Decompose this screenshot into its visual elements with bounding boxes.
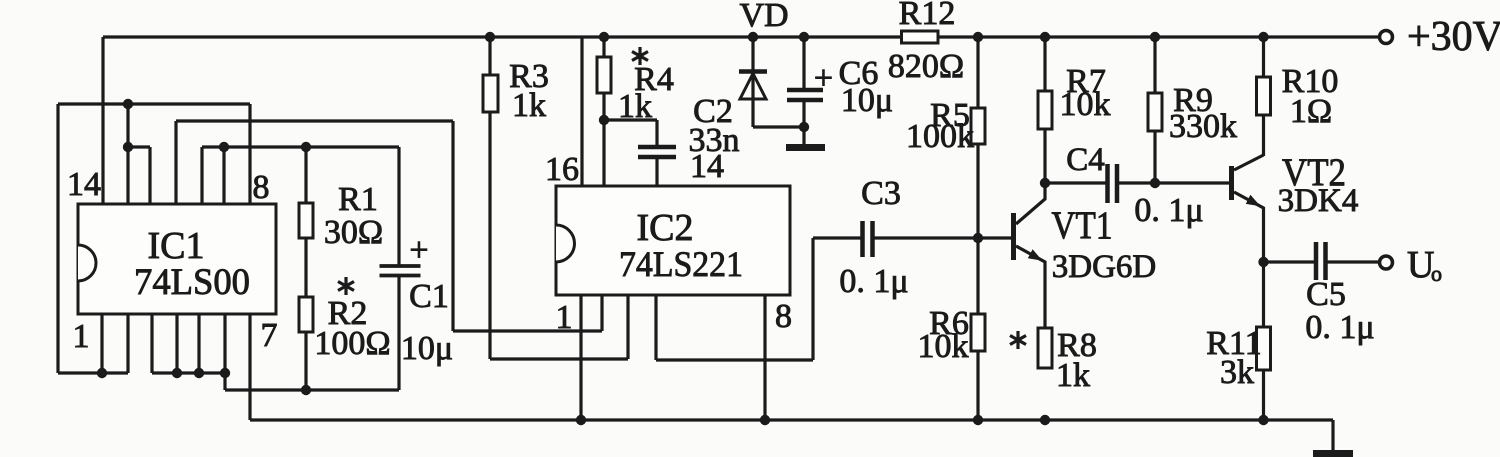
wire pin11 down vertical: [451, 121, 454, 331]
svg-text:1k: 1k: [1056, 357, 1090, 394]
svg-text:IC2: IC2: [637, 207, 694, 249]
wire C6 top lead: [802, 37, 805, 89]
wire IC2 pin3: [626, 295, 629, 359]
junction IC2 pin8 at bus: [760, 415, 770, 425]
junction R11 at bus: [1258, 415, 1268, 425]
wire IC2 pin1 to bus: [579, 295, 582, 420]
wire IC1 pin1: [100, 314, 103, 373]
junction R4-C2 node: [599, 115, 609, 125]
wire C5 left lead: [1264, 260, 1315, 263]
svg-text:+: +: [814, 60, 833, 97]
wire R5 chain: [976, 37, 979, 238]
wire R3 chain: [488, 37, 491, 359]
wire R10 chain: [1262, 37, 1265, 156]
resistor R8: [1038, 327, 1097, 394]
junction pin1 bottom net: [97, 368, 107, 378]
svg-text:R1: R1: [338, 181, 378, 218]
junction R9-C4 node: [1150, 178, 1160, 188]
wire VT1 collector: [1016, 183, 1045, 224]
svg-text:33n: 33n: [689, 122, 740, 159]
wire R4 to C2 horizontal: [604, 118, 657, 121]
wire left box vertical: [56, 104, 59, 373]
wire IC1 pin8: [248, 104, 251, 204]
resistor R7: [1038, 63, 1111, 129]
svg-text:C3: C3: [861, 175, 901, 212]
wire net C horizontal: [202, 145, 399, 148]
wire IC1 pin13: [126, 104, 129, 204]
junction IC2 pin1 at bus: [576, 415, 586, 425]
junction R3 at rail: [485, 32, 495, 42]
svg-text:C5: C5: [1306, 276, 1346, 313]
junction R9 at rail: [1150, 32, 1160, 42]
wire R7 chain: [1043, 37, 1046, 183]
wire C4 left lead: [1045, 181, 1106, 184]
svg-text:10k: 10k: [918, 328, 969, 365]
svg-text:1: 1: [73, 318, 90, 355]
wire IC2 pin4 horizontal: [656, 358, 813, 361]
terminal Uo output: [1380, 244, 1443, 286]
svg-text:3k: 3k: [1220, 354, 1254, 391]
wire to VT2 base: [1155, 181, 1229, 184]
wire C2 top lead: [655, 120, 658, 145]
wire C1 bottom lead: [397, 277, 400, 390]
capacitor C2: [638, 93, 740, 159]
junction R8 at bus: [1040, 415, 1050, 425]
wire VT1 emitter: [1016, 246, 1045, 328]
svg-text:+30V: +30V: [1407, 14, 1500, 60]
wire C3 left lead: [813, 236, 861, 239]
wire VD to C6: [753, 125, 804, 128]
transistor Q2 VT2: [1229, 151, 1358, 219]
wire IC1 pin9: [222, 147, 225, 204]
svg-text:0. 1μ: 0. 1μ: [1134, 192, 1203, 229]
wire pin11 horizontal: [176, 119, 453, 122]
svg-text:VT1: VT1: [1052, 204, 1113, 247]
wire IC1 pin2: [126, 314, 129, 373]
IC U2 IC2 74LS221 box: [556, 186, 790, 295]
wire C5 right lead: [1328, 260, 1381, 263]
wire R4 chain: [602, 37, 605, 186]
junction R5 at rail: [973, 32, 983, 42]
wire VT2 collector: [1234, 155, 1264, 170]
capacitor C1 electrolytic: [380, 232, 454, 367]
wire pins 3-6 bottom: [152, 371, 225, 374]
wire IC1 pin7 to bus: [248, 314, 251, 420]
junction VD-C6 node: [799, 122, 809, 132]
wire IC1 pin12: [148, 147, 151, 204]
svg-text:3DG6D: 3DG6D: [1052, 249, 1157, 285]
svg-text:10μ: 10μ: [401, 330, 453, 367]
wire C1 top lead: [397, 147, 400, 265]
resistor R2: [299, 295, 391, 362]
resistor R10: [1257, 63, 1339, 130]
wire +30V rail: [103, 35, 1380, 38]
wire IC1 pin3: [150, 314, 153, 373]
svg-text:820Ω: 820Ω: [888, 48, 964, 85]
junction pin5 bottom net: [194, 368, 204, 378]
capacitor C4: [1066, 142, 1203, 229]
svg-text:30Ω: 30Ω: [324, 214, 383, 251]
svg-text:8: 8: [253, 169, 270, 206]
ground bottom right: [1313, 450, 1353, 457]
svg-text:1: 1: [556, 299, 573, 336]
diode VD: [739, 0, 789, 99]
svg-text:+: +: [409, 232, 428, 269]
wire R11 chain: [1262, 262, 1265, 420]
node VT1 collector C4 R7: [1040, 178, 1050, 188]
wire IC1 pin6: [223, 314, 226, 373]
junction C6 at rail: [799, 32, 809, 42]
terminal +30V: [1380, 14, 1500, 60]
svg-text:74LS00: 74LS00: [134, 262, 250, 303]
wire pins 1-2 bottom: [58, 371, 128, 374]
wire IC2 pin4: [654, 295, 657, 360]
wire IC2 pin2: [600, 295, 603, 331]
wire IC1 pin10: [200, 147, 203, 204]
svg-text:1Ω: 1Ω: [1290, 93, 1332, 130]
wire IC2 pin16 to rail: [580, 37, 583, 186]
svg-text:0. 1μ: 0. 1μ: [839, 263, 908, 300]
wire R1 R2 chain: [304, 147, 307, 390]
svg-text:74LS221: 74LS221: [619, 244, 743, 284]
wire pin6 drop: [223, 373, 226, 390]
wire C2 bottom lead: [655, 159, 658, 186]
junction pin6 bottom net: [220, 368, 230, 378]
junction pin9 on net C: [219, 142, 229, 152]
svg-text:3DK4: 3DK4: [1278, 183, 1359, 219]
svg-text:IC1: IC1: [148, 225, 205, 267]
junction R10 at rail: [1258, 32, 1268, 42]
svg-text:1k: 1k: [618, 88, 652, 125]
wire net pin8 top horizontal: [58, 102, 250, 105]
svg-text:330k: 330k: [1169, 108, 1237, 145]
IC U1 IC1 74LS00 box: [78, 204, 276, 314]
resistor R11: [1206, 325, 1270, 391]
wire IC1 pin14 to rail: [101, 37, 104, 204]
resistor R12: [888, 0, 964, 85]
resistor R5: [906, 97, 985, 155]
junction pin13-pin12 link: [123, 142, 133, 152]
junction pin4 bottom net: [172, 368, 182, 378]
capacitor C6 electrolytic: [787, 55, 893, 119]
junction R2 bottom node: [301, 385, 311, 395]
wire R9 chain: [1153, 37, 1156, 183]
svg-text:C1: C1: [409, 278, 449, 315]
wire C3 right to VT1 base: [875, 236, 1012, 239]
wire VD bottom lead: [751, 99, 754, 127]
wire up to C3: [811, 238, 814, 360]
wire pin11 to IC2 horizontal: [453, 329, 602, 332]
svg-text:10μ: 10μ: [841, 82, 893, 119]
svg-text:16: 16: [545, 151, 579, 188]
svg-text:o: o: [1431, 261, 1442, 286]
junction R1 top node: [301, 142, 311, 152]
wire IC1 pin11: [174, 121, 177, 204]
wire VT2 emitter: [1234, 192, 1264, 262]
wire bus drop to ground: [1331, 420, 1334, 451]
wire IC1 pin4: [175, 314, 178, 373]
svg-text:14: 14: [67, 166, 101, 203]
svg-text:1k: 1k: [512, 87, 546, 124]
asterisk for R2: [338, 277, 354, 295]
svg-text:100Ω: 100Ω: [314, 325, 390, 362]
svg-text:VD: VD: [739, 0, 788, 34]
wire C6 bottom lead: [802, 101, 805, 144]
junction R4 at rail: [599, 32, 609, 42]
svg-text:7: 7: [261, 317, 278, 354]
junction R7 at rail: [1040, 32, 1050, 42]
svg-text:8: 8: [775, 298, 792, 335]
resistor R1: [299, 181, 383, 251]
svg-text:R12: R12: [899, 0, 956, 32]
resistor R4: [597, 57, 674, 125]
wire R2 C1 bottom horizontal: [225, 388, 399, 391]
resistor R9: [1148, 82, 1237, 145]
resistor R3: [483, 58, 549, 124]
node B VT1 base R5 R6: [973, 233, 983, 243]
junction pin13-pin8 net: [123, 99, 133, 109]
wire R3 to IC2 pin3: [490, 357, 628, 360]
wire R6 chain: [976, 238, 979, 420]
junction R6 at bus: [973, 415, 983, 425]
asterisk for R4: [632, 47, 648, 65]
node VT2 emitter C5 R11: [1258, 257, 1268, 267]
asterisk for R8: [1010, 331, 1026, 349]
wire IC1 pin5: [197, 314, 200, 373]
wire VD top lead: [751, 37, 754, 99]
resistor R6: [918, 305, 986, 365]
ground under C6: [786, 144, 825, 151]
svg-text:0. 1μ: 0. 1μ: [1305, 309, 1374, 346]
wire IC2 pin8 to bus: [763, 295, 766, 420]
capacitor C3: [839, 175, 908, 300]
wire C4 right lead: [1119, 181, 1155, 184]
transistor Q1 VT1: [1011, 204, 1156, 285]
svg-text:100k: 100k: [906, 118, 974, 155]
svg-text:10k: 10k: [1060, 86, 1111, 123]
junction VD at rail: [748, 32, 758, 42]
capacitor C5: [1305, 242, 1374, 346]
svg-text:C4: C4: [1066, 142, 1105, 178]
wire pin12-pin13 link: [128, 145, 150, 148]
wire ground bus: [250, 418, 1333, 421]
